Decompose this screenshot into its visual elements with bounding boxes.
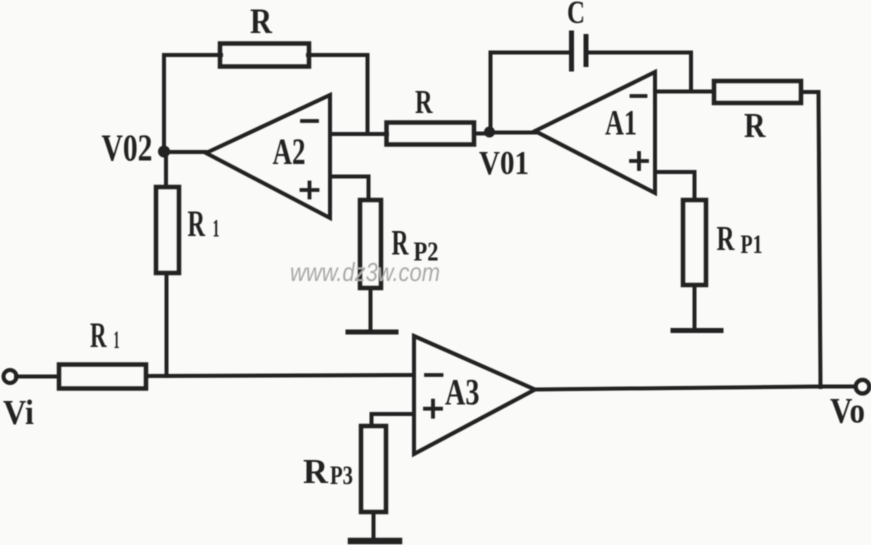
svg-text:V01: V01	[479, 145, 529, 182]
A2 plus sign	[302, 183, 318, 198]
wire: top R right side down to A2 inverting input line	[308, 55, 368, 134]
op-amp A2 (pointing left)	[206, 95, 330, 218]
svg-text:A1: A1	[605, 103, 637, 143]
terminal Vo (output)	[856, 380, 870, 394]
svg-text:C: C	[567, 0, 585, 31]
svg-text:R: R	[250, 1, 273, 41]
wire: vertical R1 down to input line junction	[165, 273, 169, 376]
A3 minus sign	[426, 373, 442, 377]
wire: input R1 to A3 inverting input	[146, 375, 414, 376]
svg-text:Vo: Vo	[830, 391, 865, 431]
node V01 (junction dot)	[484, 127, 495, 138]
wire: A2 inverting input to middle resistor R	[330, 132, 387, 136]
wire: A3 output to Vo terminal	[535, 387, 855, 390]
resistor RP3	[361, 426, 386, 512]
wire: RP1 bottom to ground	[693, 285, 697, 330]
wire: RP2 bottom to ground	[369, 288, 373, 331]
resistor R (top feedback of A2)	[220, 44, 309, 67]
wire: capacitor C to A1 inverting input line	[586, 53, 691, 92]
svg-text:A2: A2	[273, 132, 306, 173]
wire: right R to right rail down to output line	[801, 92, 821, 387]
wire: node V02 down to vertical R1	[164, 152, 168, 187]
resistor RP2	[360, 200, 381, 288]
svg-text:R: R	[717, 219, 736, 258]
ground (RP2)	[348, 330, 396, 335]
svg-text:1: 1	[213, 216, 220, 243]
capacitor C right plate	[584, 37, 589, 65]
svg-text:V02: V02	[102, 128, 153, 170]
wire: node V01 up and to capacitor C	[491, 53, 572, 134]
wire: A1 non-inverting input down to RP1	[655, 172, 695, 200]
A1 plus sign	[631, 153, 647, 169]
resistor RP1	[683, 200, 706, 285]
op-amp A1 (pointing left)	[535, 72, 655, 193]
wire: middle R to node V01	[474, 132, 490, 136]
svg-text:P3: P3	[330, 461, 353, 490]
capacitor C left plate	[569, 33, 574, 69]
node V02 (junction dot)	[158, 146, 170, 158]
wire: RP3 bottom to ground	[372, 512, 376, 539]
svg-text:R: R	[744, 106, 766, 145]
svg-text:R: R	[90, 315, 107, 355]
op-amp A3 (pointing right)	[414, 336, 535, 454]
resistor R (between A2 and V01)	[387, 123, 475, 145]
A1 minus sign	[632, 94, 646, 98]
svg-text:R: R	[303, 452, 329, 491]
resistor R1 (input, horizontal)	[59, 365, 146, 389]
wire: Vi terminal to input resistor R1	[16, 375, 59, 379]
wire: V02 node up-left corner to top resistor R	[164, 55, 221, 152]
svg-text:1: 1	[114, 327, 120, 354]
svg-text:R: R	[415, 84, 433, 121]
A2 minus sign	[302, 119, 317, 123]
svg-text:Vi: Vi	[3, 393, 34, 432]
wire: node V02 to A2 output apex	[164, 150, 207, 154]
resistor R1 (vertical, below V02)	[156, 187, 179, 273]
svg-text:A3: A3	[445, 373, 480, 414]
svg-text:P1: P1	[741, 230, 763, 259]
svg-text:R: R	[188, 204, 206, 245]
svg-text:www.dz3w.com: www.dz3w.com	[290, 257, 440, 287]
ground (RP3)	[351, 538, 399, 545]
wire: node V01 to A1 output apex	[489, 131, 536, 135]
A3 plus sign	[425, 401, 441, 417]
ground (RP1)	[673, 328, 721, 333]
wire: A1 inverting input to right resistor R	[655, 90, 714, 94]
wire: A3 non-inverting input left and down to RP3	[372, 414, 415, 426]
resistor R (feedback from output to A1 inverting input)	[714, 81, 801, 103]
terminal Vi (input)	[4, 370, 17, 383]
wire: A2 non-inverting input down to RP2	[330, 177, 369, 201]
